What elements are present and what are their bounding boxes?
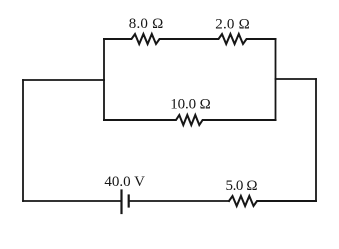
svg-text:10.0 Ω: 10.0 Ω bbox=[170, 97, 211, 113]
svg-text:5.0 Ω: 5.0 Ω bbox=[226, 178, 258, 194]
svg-text:8.0 Ω: 8.0 Ω bbox=[129, 16, 164, 32]
svg-text:40.0 V: 40.0 V bbox=[104, 174, 145, 190]
svg-text:2.0 Ω: 2.0 Ω bbox=[215, 16, 250, 32]
